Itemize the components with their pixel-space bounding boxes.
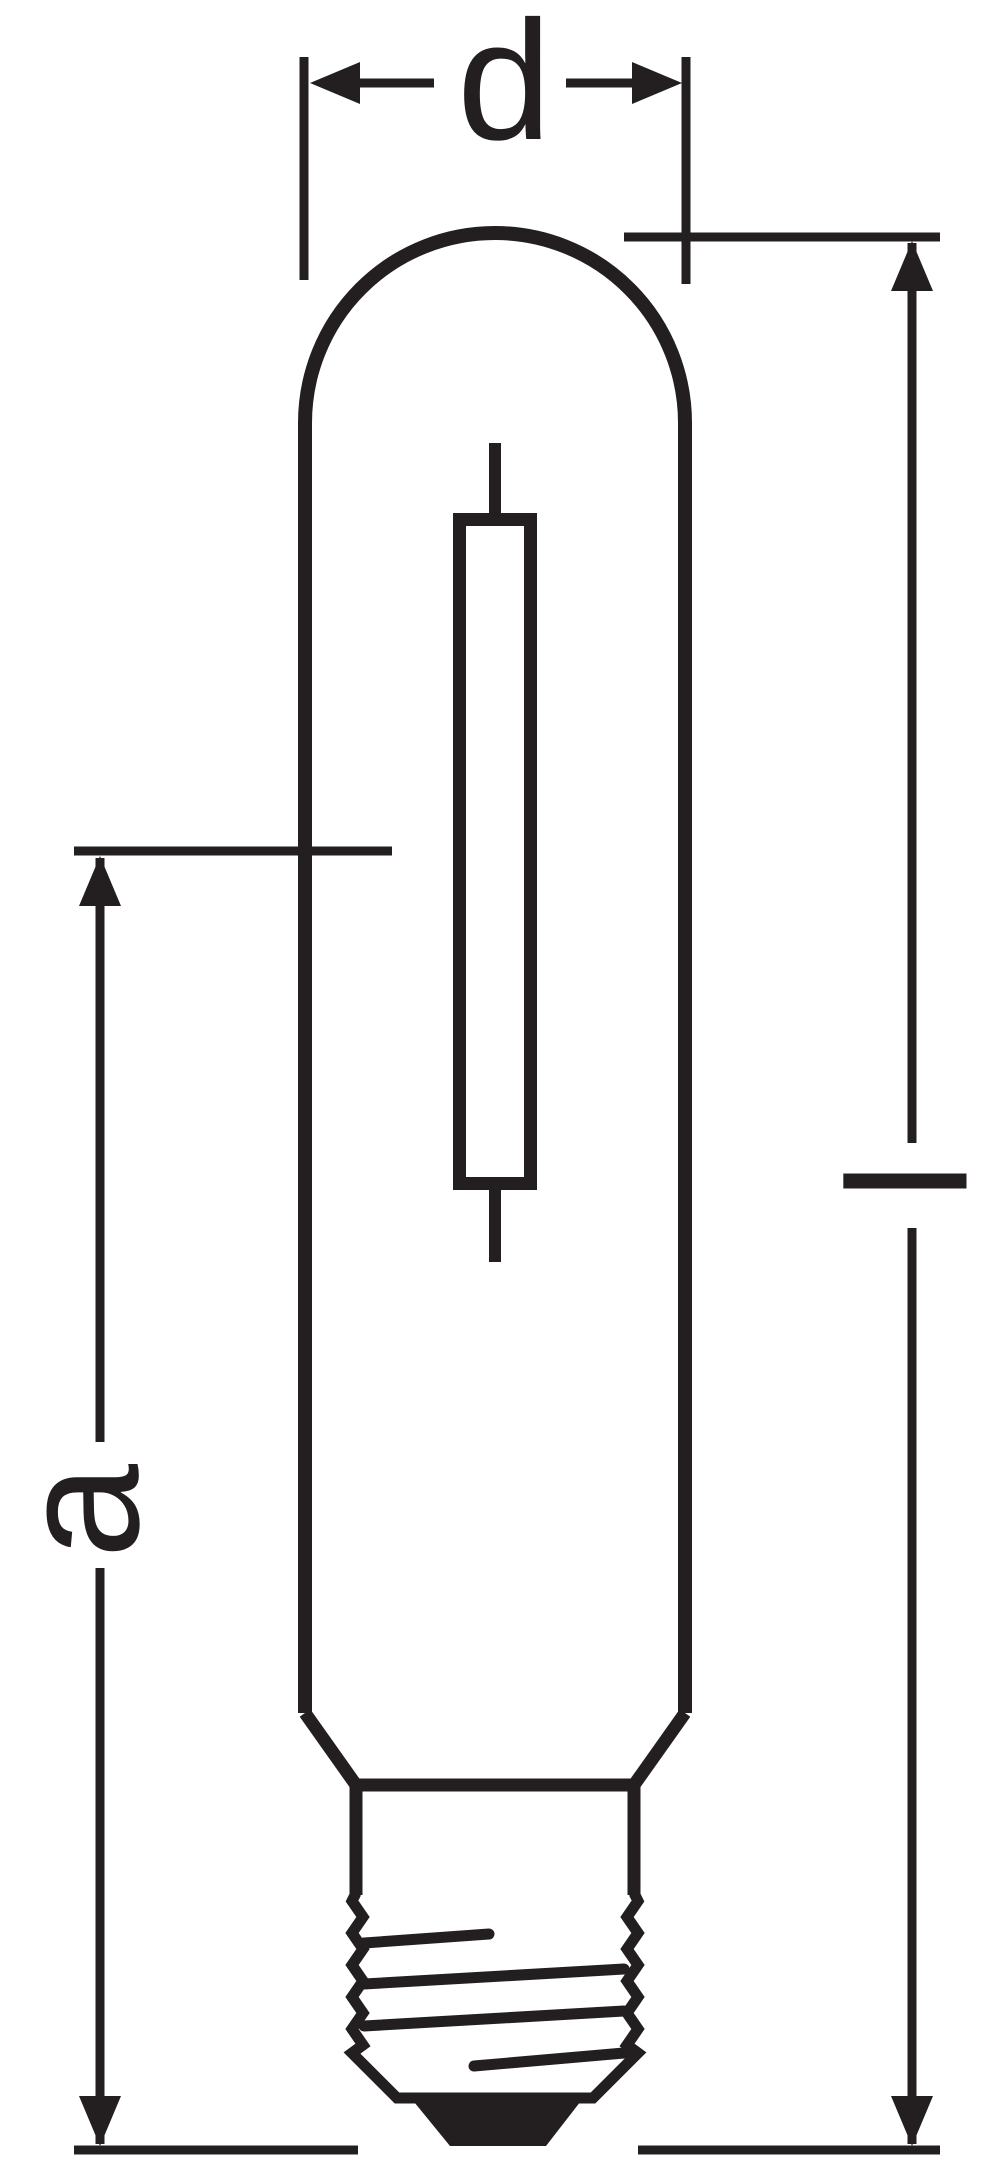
svg-text:a: a bbox=[0, 1464, 175, 1559]
svg-text:d: d bbox=[457, 0, 552, 176]
svg-text:l: l bbox=[814, 1162, 1000, 1200]
